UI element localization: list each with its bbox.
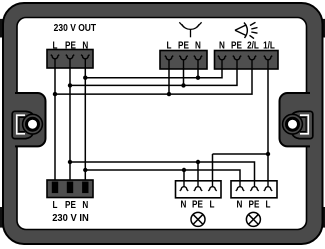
svg-text:230 V OUT: 230 V OUT	[54, 22, 97, 33]
svg-text:L: L	[210, 199, 215, 210]
svg-text:N: N	[82, 40, 88, 51]
svg-text:N: N	[195, 40, 201, 51]
svg-text:PE: PE	[178, 40, 189, 51]
svg-text:N: N	[82, 199, 88, 210]
svg-text:2/L: 2/L	[247, 40, 259, 51]
svg-text:PE: PE	[231, 40, 242, 51]
svg-text:PE: PE	[249, 199, 260, 210]
svg-text:230 V IN: 230 V IN	[52, 213, 89, 224]
svg-text:N: N	[219, 40, 225, 51]
svg-text:L: L	[167, 40, 172, 51]
svg-text:N: N	[237, 199, 243, 210]
svg-text:L: L	[53, 40, 58, 51]
svg-text:PE: PE	[192, 199, 203, 210]
svg-text:L: L	[266, 199, 271, 210]
svg-text:PE: PE	[65, 40, 76, 51]
svg-text:L: L	[53, 199, 58, 210]
svg-text:1/L: 1/L	[263, 40, 275, 51]
svg-text:N: N	[181, 199, 187, 210]
svg-text:PE: PE	[65, 199, 76, 210]
